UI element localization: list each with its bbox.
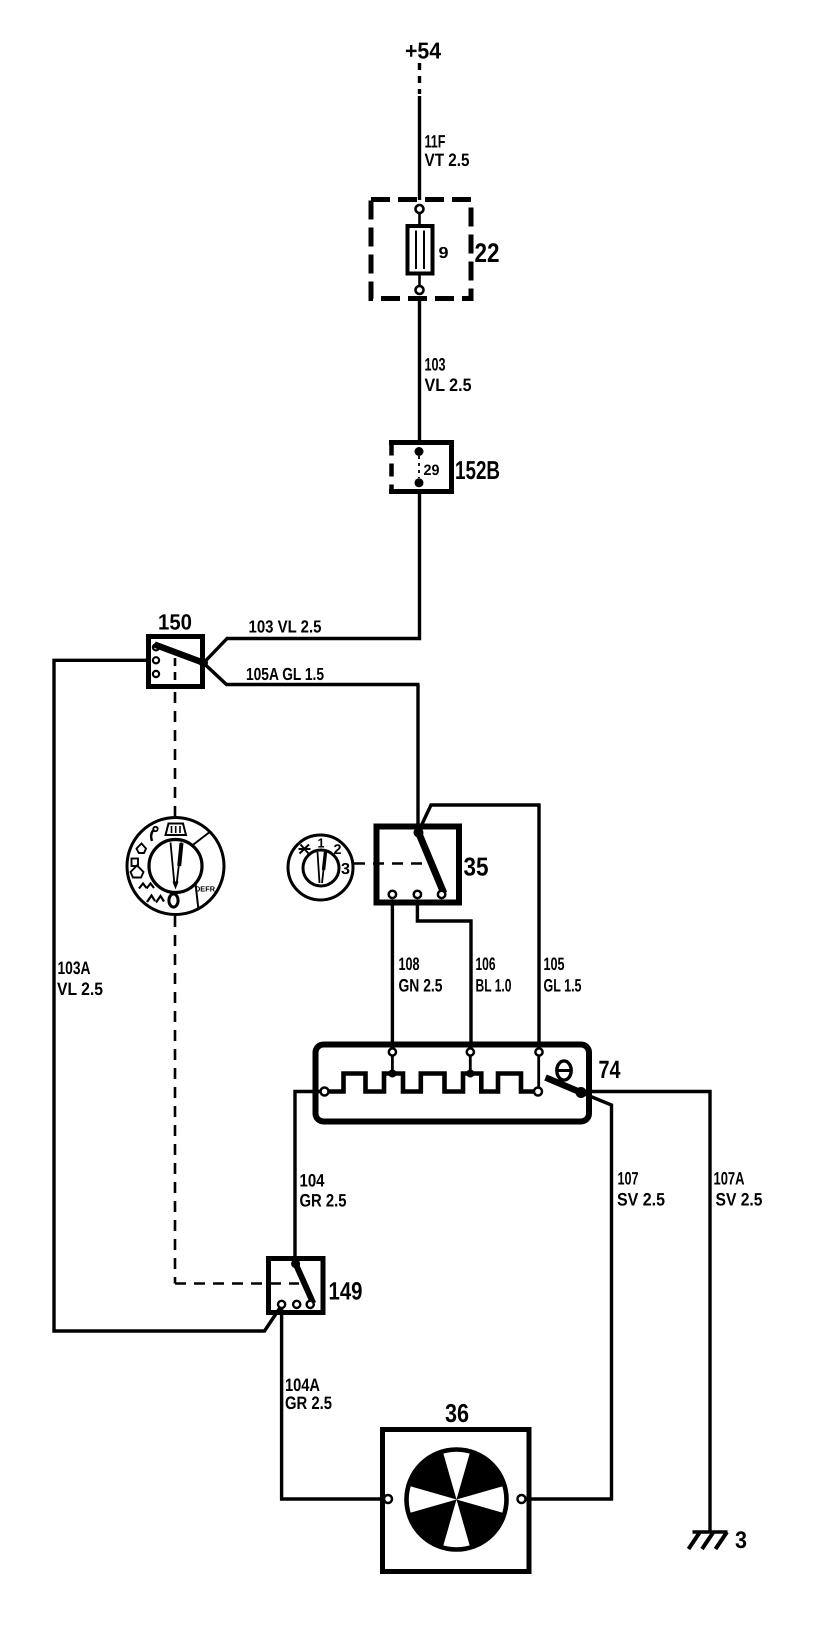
wire 105 GL 1.5 [420, 805, 540, 1048]
svg-text:107: 107 [618, 1169, 639, 1189]
wire 103A from 150 left [54, 660, 282, 1331]
resistor pack 74 body [316, 1045, 590, 1122]
twin icons [139, 884, 154, 889]
svg-text:DEFR: DEFR [195, 885, 216, 894]
ground 3 [689, 1532, 728, 1549]
svg-text:108: 108 [399, 954, 420, 974]
svg-text:107A: 107A [714, 1169, 745, 1189]
switch 35 pivot dot [414, 828, 424, 838]
fan selector dial [288, 835, 353, 900]
switch 35 contacts [389, 891, 396, 898]
fuse box 22 (dashed enclosure) [371, 200, 471, 299]
svg-text:SV 2.5: SV 2.5 [617, 1190, 665, 1210]
pin dot 152B top [415, 447, 424, 456]
wire 103 fuse to connector [418, 298, 421, 441]
wire 105A down to switch 35 [416, 685, 419, 831]
svg-text:150: 150 [158, 610, 192, 635]
fuse terminal top [416, 205, 424, 213]
fan terminal left [384, 1495, 392, 1503]
wire 107A SV 2.5 [584, 1092, 710, 1533]
switch 150 arm [155, 645, 205, 664]
resistor end circle left [321, 1088, 329, 1096]
wire dashed lead from +54 [418, 63, 421, 94]
svg-text:VT 2.5: VT 2.5 [425, 150, 470, 170]
pin link dotted [418, 456, 420, 478]
pin dot 152B bottom [415, 478, 424, 487]
switch 35 body [377, 827, 460, 903]
fan motor 36 body [383, 1430, 530, 1572]
switch 149 arm [296, 1264, 314, 1304]
terminal 74 pin1 [389, 1048, 396, 1055]
svg-text:11F: 11F [425, 132, 446, 152]
arrow icon small [137, 844, 147, 854]
svg-text:VL 2.5: VL 2.5 [425, 375, 472, 395]
mech link dash dial2 to 35 [354, 862, 426, 865]
switch 35 arm [419, 833, 444, 894]
svg-text:149: 149 [329, 1278, 363, 1306]
junction dot meander 1 [388, 1070, 396, 1078]
terminal 74 pin2 [467, 1048, 474, 1055]
svg-text:103A: 103A [58, 958, 91, 978]
svg-text:105: 105 [544, 954, 565, 974]
wire 103 connector to switch 150 [227, 494, 420, 639]
svg-text:1: 1 [318, 836, 325, 851]
svg-text:36: 36 [445, 1398, 469, 1428]
fan terminal right [518, 1495, 526, 1503]
wire 107 SV 2.5 [526, 1093, 612, 1500]
resistor end circle right [534, 1088, 542, 1096]
svg-text:152B: 152B [455, 455, 500, 485]
svg-text:GR 2.5: GR 2.5 [285, 1393, 332, 1413]
svg-text:GR 2.5: GR 2.5 [300, 1191, 347, 1211]
twin arrows bottom [147, 896, 164, 903]
svg-text:2: 2 [334, 841, 342, 857]
fan motor 36 wheel [407, 1450, 507, 1550]
svg-text:9: 9 [439, 245, 449, 262]
switch 149 pivot dot [291, 1259, 300, 1268]
zero mark [169, 894, 178, 907]
svg-text:35: 35 [464, 852, 489, 882]
mech link dashed dial to 149 [174, 916, 177, 1284]
fan icon [299, 845, 311, 854]
switch 150 body [149, 637, 203, 687]
wire 104 GR 2.5 [295, 1092, 321, 1261]
svg-text:105A GL 1.5: 105A GL 1.5 [246, 664, 324, 684]
switch 149 body [269, 1259, 324, 1313]
wire diagonal into 150 junction [204, 638, 229, 664]
svg-text:3: 3 [341, 861, 350, 878]
switch 150 contacts [153, 644, 159, 650]
switch 149 contacts [278, 1301, 285, 1308]
svg-text:104: 104 [300, 1171, 325, 1191]
wire 106 BL 1.0 [417, 903, 471, 1048]
pin stubs 74 [392, 1056, 538, 1088]
person icon [151, 830, 154, 842]
svg-text:+54: +54 [405, 38, 441, 64]
junction dot meander 2 [466, 1070, 474, 1078]
svg-text:103 VL 2.5: 103 VL 2.5 [249, 617, 322, 637]
svg-text:GN 2.5: GN 2.5 [399, 976, 443, 996]
resistor element meander [329, 1074, 535, 1092]
thermal switch arm 74 [546, 1078, 582, 1093]
svg-text:74: 74 [599, 1056, 621, 1084]
wire 11F VT 2.5 [418, 96, 421, 200]
svg-text:29: 29 [424, 462, 440, 479]
junction dot 150 [199, 659, 208, 668]
heater control dial [127, 818, 224, 915]
svg-text:104A: 104A [285, 1375, 320, 1395]
fuse terminal bottom [416, 286, 424, 294]
wire 108 GN 2.5 [391, 903, 394, 1048]
svg-text:BL 1.0: BL 1.0 [476, 976, 512, 996]
arrow icon big [131, 866, 144, 878]
wire 105A diagonal from 150 junction [204, 663, 420, 685]
wire 104A GR 2.5 [282, 1308, 384, 1499]
svg-text:103: 103 [425, 355, 446, 375]
svg-text:SV 2.5: SV 2.5 [716, 1190, 763, 1210]
svg-text:22: 22 [475, 238, 500, 268]
connector 152B [389, 443, 452, 492]
terminal 74 pin3 [535, 1048, 542, 1055]
svg-text:VL 2.5: VL 2.5 [57, 979, 103, 999]
square icon [132, 859, 139, 867]
svg-text:106: 106 [476, 954, 496, 974]
svg-text:GL 1.5: GL 1.5 [544, 976, 582, 996]
thermal symbol theta [557, 1061, 571, 1080]
mech link dashed inside 150 [174, 658, 177, 687]
mech link dashed 150 to heater dial [174, 692, 177, 816]
junction blob 74 right [576, 1087, 587, 1098]
fuse 9 element [408, 213, 433, 286]
windshield icon [166, 824, 187, 836]
svg-text:3: 3 [735, 1527, 747, 1554]
